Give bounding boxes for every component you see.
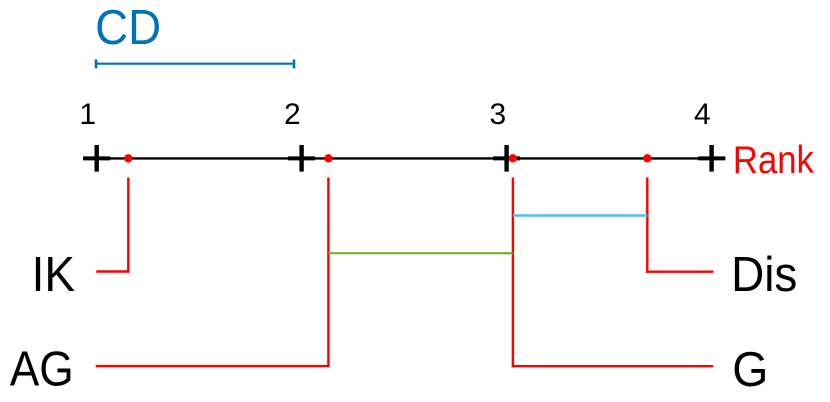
svg-text:CD: CD [95, 1, 161, 55]
svg-text:2: 2 [284, 98, 301, 131]
svg-text:IK: IK [32, 248, 76, 302]
svg-text:4: 4 [694, 98, 711, 131]
svg-text:Rank: Rank [733, 139, 815, 182]
svg-text:G: G [732, 343, 768, 397]
svg-text:1: 1 [79, 98, 96, 131]
svg-text:3: 3 [489, 98, 506, 131]
svg-text:Dis: Dis [731, 248, 797, 302]
svg-text:AG: AG [10, 343, 74, 397]
